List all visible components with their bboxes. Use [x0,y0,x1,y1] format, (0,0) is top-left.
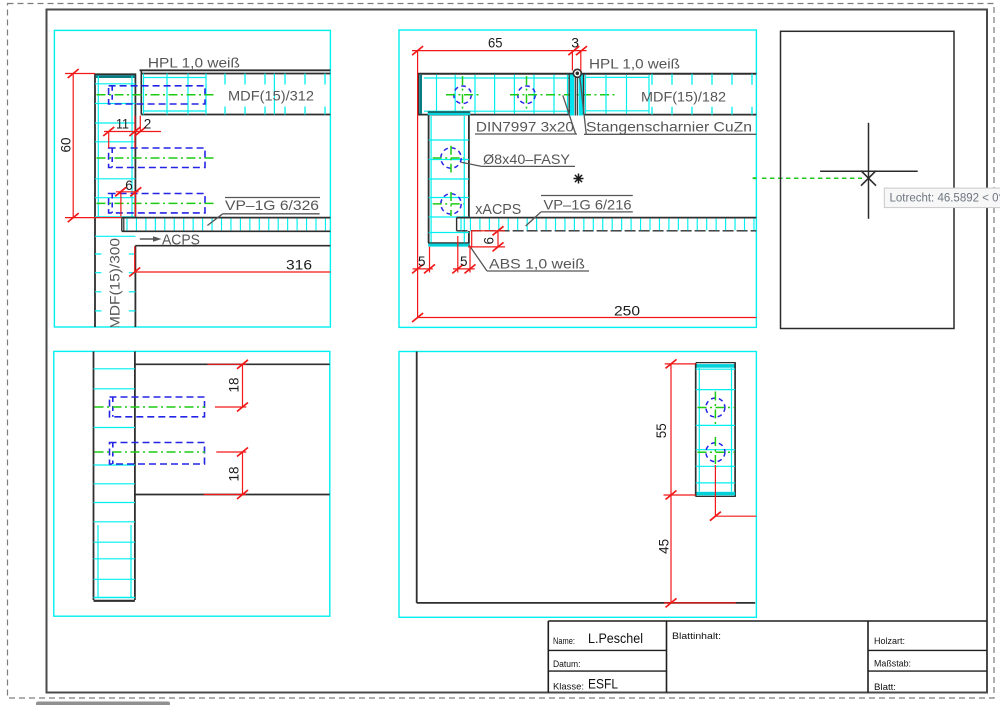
svg-text:18: 18 [227,467,242,482]
svg-text:65: 65 [488,35,503,51]
svg-text:Stangenscharnier CuZn: Stangenscharnier CuZn [586,118,752,134]
svg-text:316: 316 [286,258,312,273]
svg-text:6: 6 [481,237,496,245]
svg-text:ACPS: ACPS [162,233,200,249]
svg-text:60: 60 [58,137,74,152]
svg-text:VP–1G 6/326: VP–1G 6/326 [225,197,319,213]
svg-text:6: 6 [125,178,133,193]
svg-text:DIN7997 3x20: DIN7997 3x20 [476,118,574,134]
svg-text:ABS 1,0 weiß: ABS 1,0 weiß [489,256,585,272]
svg-text:Blatt:: Blatt: [874,682,896,692]
svg-text:5: 5 [418,254,426,269]
svg-text:18: 18 [227,378,242,393]
svg-text:xACPS: xACPS [475,202,521,218]
svg-text:11: 11 [116,117,129,132]
svg-text:Klasse:: Klasse: [553,682,584,692]
svg-text:2: 2 [144,117,152,132]
svg-text:HPL 1,0 weiß: HPL 1,0 weiß [148,55,240,71]
svg-text:HPL 1,0 weiß: HPL 1,0 weiß [589,55,680,71]
svg-text:Maßstab:: Maßstab: [874,659,911,669]
svg-text:250: 250 [614,303,640,319]
svg-text:5: 5 [460,254,468,269]
svg-text:MDF(15)/182: MDF(15)/182 [641,89,726,105]
svg-text:Blattinhalt:: Blattinhalt: [672,631,721,641]
svg-text:Name:: Name: [553,636,575,646]
svg-text:Datum:: Datum: [553,659,581,669]
svg-text:45: 45 [656,539,671,554]
svg-text:55: 55 [654,423,669,438]
svg-text:MDF(15)/312: MDF(15)/312 [228,88,314,104]
svg-text:ESFL: ESFL [588,677,618,692]
svg-text:VP–1G 6/216: VP–1G 6/216 [544,197,632,213]
svg-text:Lotrecht: 46.5892 < 0°: Lotrecht: 46.5892 < 0° [890,192,1000,204]
svg-text:MDF(15)/300: MDF(15)/300 [108,238,123,329]
svg-text:Holzart:: Holzart: [874,636,905,646]
svg-text:L.Peschel: L.Peschel [588,631,643,646]
svg-text:Ø8x40–FASY: Ø8x40–FASY [483,151,571,167]
